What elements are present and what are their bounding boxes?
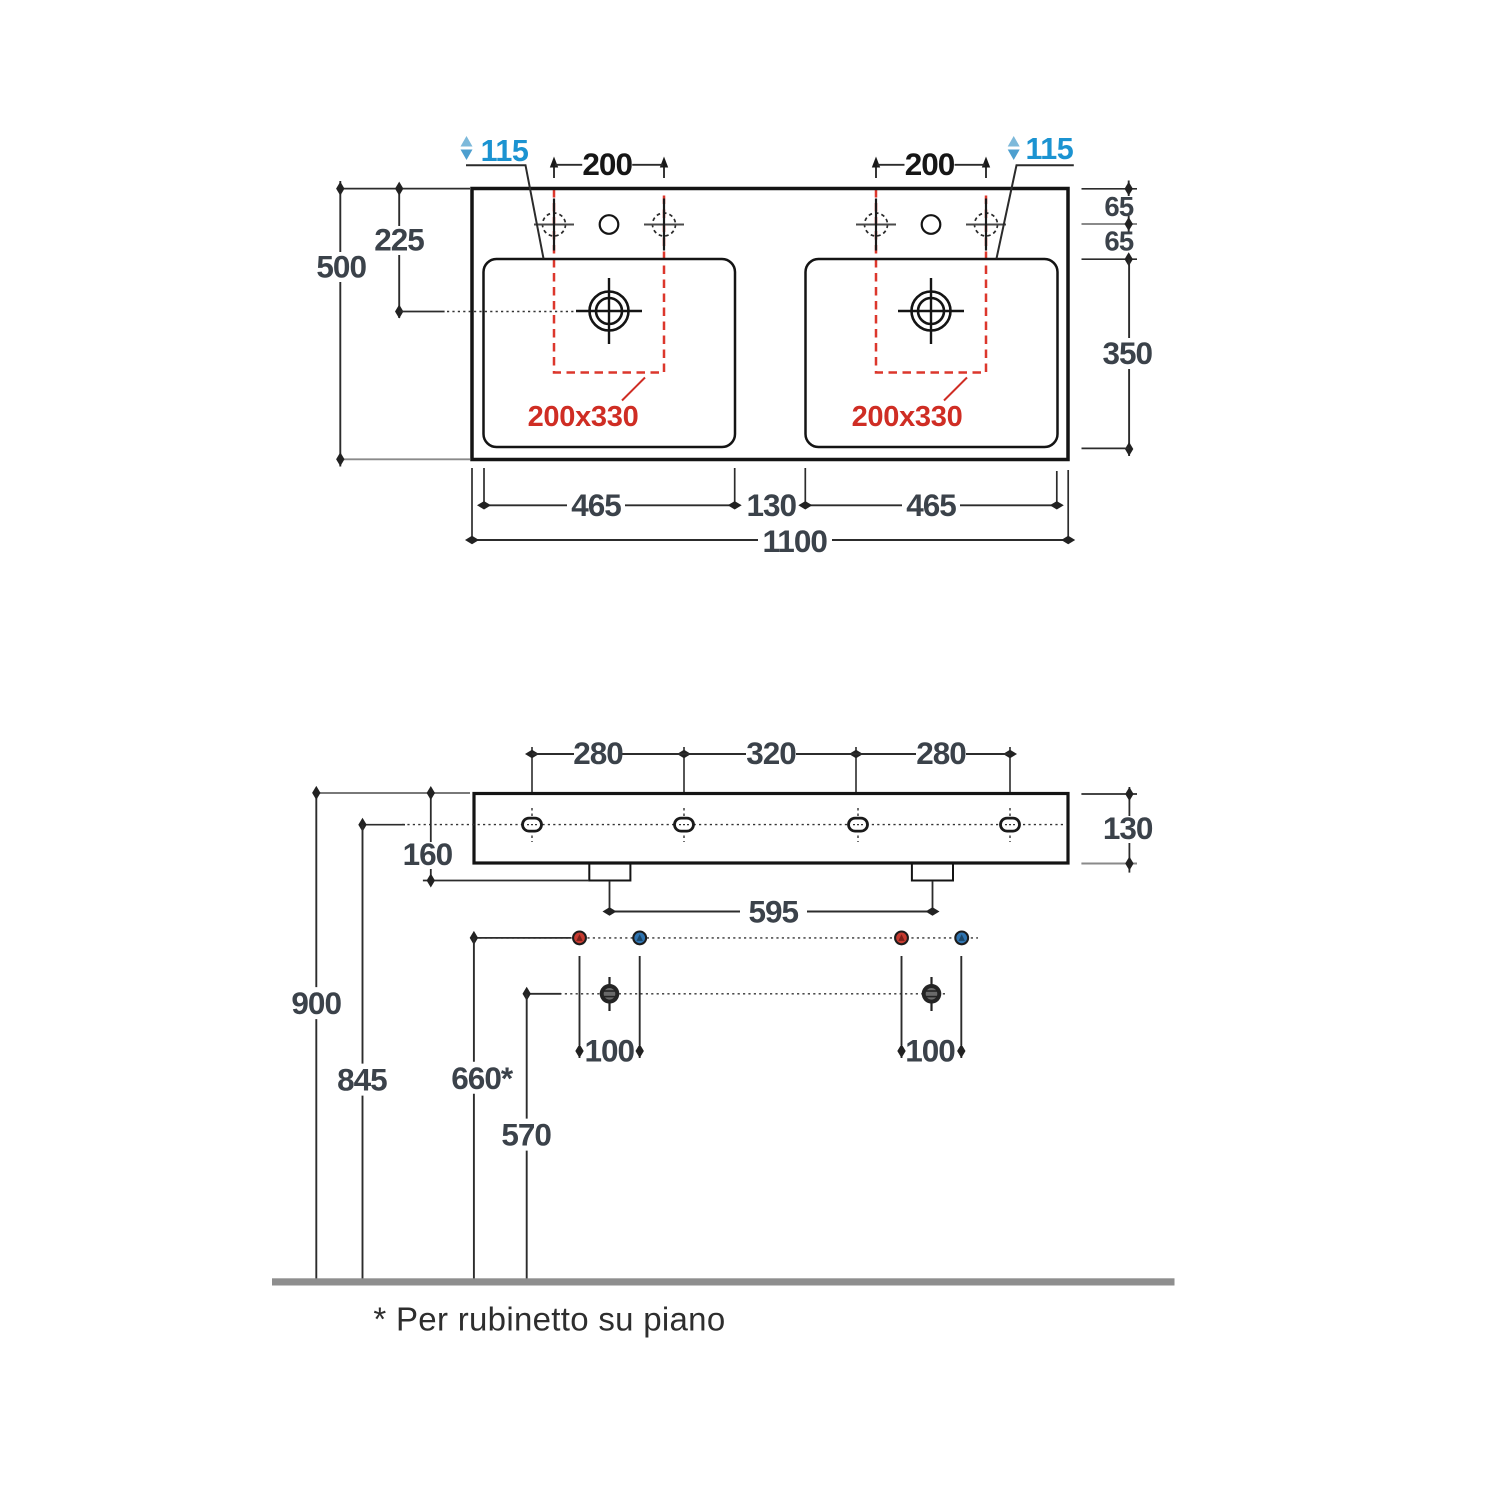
svg-text:225: 225 <box>374 222 424 258</box>
svg-text:65: 65 <box>1104 225 1133 256</box>
svg-text:500: 500 <box>316 248 366 284</box>
svg-text:200: 200 <box>905 146 955 182</box>
svg-text:100: 100 <box>585 1033 635 1069</box>
svg-text:595: 595 <box>749 894 799 930</box>
svg-text:280: 280 <box>573 735 623 771</box>
svg-text:845: 845 <box>337 1062 387 1098</box>
svg-text:350: 350 <box>1103 335 1153 371</box>
svg-text:130: 130 <box>747 487 797 523</box>
svg-text:900: 900 <box>291 985 341 1021</box>
svg-text:465: 465 <box>571 487 621 523</box>
svg-text:* Per rubinetto su piano: * Per rubinetto su piano <box>373 1301 725 1338</box>
svg-text:130: 130 <box>1103 810 1153 846</box>
svg-text:280: 280 <box>916 735 966 771</box>
svg-text:200: 200 <box>582 146 632 182</box>
svg-text:1100: 1100 <box>763 523 828 559</box>
svg-text:160: 160 <box>403 836 453 872</box>
svg-text:100: 100 <box>905 1033 955 1069</box>
svg-text:465: 465 <box>906 487 956 523</box>
svg-text:320: 320 <box>746 735 796 771</box>
svg-text:115: 115 <box>1026 132 1074 166</box>
svg-text:65: 65 <box>1104 191 1133 222</box>
svg-text:115: 115 <box>481 134 529 168</box>
svg-text:570: 570 <box>501 1117 551 1153</box>
svg-text:660*: 660* <box>451 1060 514 1096</box>
